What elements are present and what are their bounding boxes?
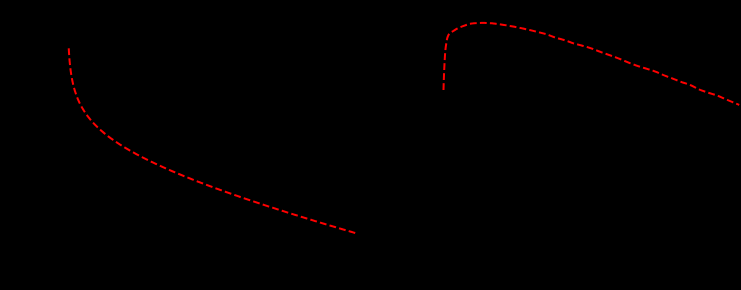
right panel curve: red dashed rise-and-decay	[444, 23, 740, 105]
left panel curve: red dashed decay	[69, 48, 357, 233]
